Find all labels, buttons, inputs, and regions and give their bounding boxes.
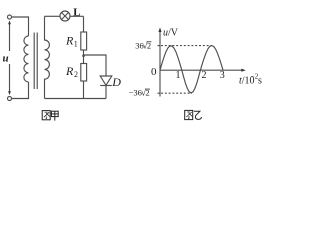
svg-text:2: 2	[145, 88, 149, 98]
svg-text:1: 1	[74, 40, 78, 49]
svg-text:L: L	[73, 6, 80, 18]
svg-text:1: 1	[176, 70, 181, 81]
svg-text:R: R	[65, 34, 74, 48]
svg-text:R: R	[65, 64, 74, 78]
svg-text:2: 2	[147, 40, 151, 50]
svg-text:3: 3	[220, 70, 225, 81]
svg-text:−36: −36	[129, 88, 142, 98]
svg-text:0: 0	[151, 66, 157, 78]
svg-text:u/V: u/V	[163, 28, 179, 39]
svg-text:s: s	[258, 76, 262, 87]
svg-text:2: 2	[202, 70, 207, 81]
svg-text:2: 2	[74, 70, 78, 79]
svg-text:D: D	[111, 75, 121, 89]
svg-text:u: u	[3, 53, 9, 65]
